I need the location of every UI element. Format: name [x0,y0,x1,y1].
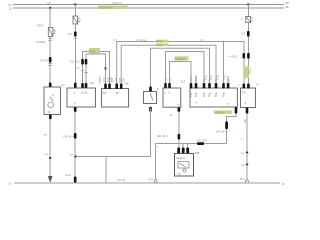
wire from bus 15 down to fuse S263 [49,8,51,28]
box A3 (control unit) [102,89,129,108]
svg-text:T6a: T6a [203,92,206,97]
svg-text:SP2: SP2 [103,77,106,82]
svg-text:mf: mf [241,164,244,167]
wire bus 30 down to fuse SB [247,5,249,17]
wire code label on hat J17 [175,56,189,60]
svg-text:0.35: 0.35 [205,75,208,80]
wire code label below box J [214,111,232,114]
svg-text:15: 15 [8,7,12,11]
pin blob below box J right [235,107,238,114]
wire switch F to ground [49,119,51,177]
connector sleeve on hat leg x86 [85,59,88,65]
svg-text:T6a: T6a [223,92,226,97]
svg-text:+2S/14: +2S/14 [214,110,223,114]
wire H1 [117,42,244,89]
svg-text:sw/ge: sw/ge [156,40,163,43]
svg-text:+A 28.1: +A 28.1 [228,55,238,59]
pin blob below A2 [74,107,77,112]
svg-text:T10k/5: T10k/5 [99,76,102,84]
svg-text:C: C [52,93,54,97]
bus 15 [13,7,284,9]
svg-text:GR 287: GR 287 [40,58,50,62]
ticks on ground wire [246,152,248,154]
svg-text:A2: A2 [91,81,95,85]
box J pin blobs [190,83,193,89]
junction dot rail to x75 wire [74,155,76,157]
svg-text:0.35 sw/ro: 0.35 sw/ro [99,6,113,10]
connector ticks on hat legs [81,70,85,72]
node on bus 30 at x75 [74,3,76,5]
svg-text:ws: ws [44,133,48,137]
svg-text:7 G: 7 G [242,91,246,94]
wire fuse S7 to relay box A2 [74,24,76,82]
wire H2 [121,45,216,88]
svg-text:GR 38.8: GR 38.8 [197,138,208,142]
jumper hat outer (box A2 to box A3) [83,52,110,89]
svg-text:F: F [157,87,159,91]
connector sleeve 107 [74,32,77,37]
svg-text:mot: mot [47,2,51,5]
pin blob above box A2 pin1 [74,83,77,89]
svg-text:T2P/7: T2P/7 [190,75,193,82]
pin blob below box A [246,108,249,114]
svg-text:ws17: ws17 [65,173,72,177]
horizontal wire y143.5 [156,143,227,145]
svg-text:J17: J17 [181,80,186,84]
wire code label on hats [89,48,100,53]
svg-text:T2P/5: T2P/5 [195,75,198,82]
svg-text:SP4: SP4 [107,77,110,82]
svg-text:0.35: 0.35 [210,75,213,80]
arrow on hat inner right leg [104,68,107,71]
svg-text:5A: 5A [53,31,56,34]
stub wire above box J pin 196 [195,76,197,83]
connector sleeve at ground x75 [74,177,77,183]
pin blob above J17 pin1 [164,83,167,88]
wire fuse SB down to box A pin2 [247,23,249,84]
fuse S263 [48,28,56,37]
wires down to relay box pins [182,144,184,154]
connector sleeve on y143.5 wire [197,142,204,145]
box A (box7) [241,88,256,108]
fuse SB [241,17,253,23]
svg-text:SP8: SP8 [119,77,122,82]
pin blob below switch F [49,115,52,120]
wire fuse S263 to box F2 [49,37,51,83]
pin blob A3 pin2 [108,84,111,90]
wire left drop to ground [155,144,157,180]
svg-text:T6a: T6a [209,92,212,97]
vertical wire code label between box A wires [243,67,249,79]
svg-text:15: 15 [285,5,289,9]
svg-text:GR 48.3: GR 48.3 [157,134,168,138]
ground bus 31 [14,182,280,184]
stub wire above box J pin 228 [227,76,229,83]
pin blob above A2 pin3 [85,83,88,88]
jumper hat inner [86,54,106,89]
wire rail drop to ground at x106 [105,157,107,183]
relay box J (bottom) [175,154,194,177]
pin blob below switch F4 [149,107,152,112]
wire switch F4 down to rail [75,109,150,157]
wire from bus 30 down to fuse S7 [74,5,76,17]
connector ticks [48,63,52,65]
svg-text:S263B: S263B [36,40,45,44]
relay box pin blobs [177,148,180,154]
junction dot on x50 wire [49,157,51,159]
box A2 (relay) [67,88,96,107]
box J (control unit, box6) [190,88,237,107]
svg-text:4T0: 4T0 [148,177,153,181]
svg-text:T2P: T2P [195,92,198,97]
svg-text:J28: J28 [195,151,200,155]
wire A2 to ground [74,112,76,183]
connector sleeve on box J down wire [225,122,228,130]
svg-text:T2P: T2P [190,92,193,97]
wire H4 from relay J17 pin1 [166,52,205,84]
svg-text:T10k: T10k [89,50,96,54]
svg-text:SP9: SP9 [123,77,126,82]
pin blob above box A pin1 [243,84,246,89]
svg-text:GR 28.7: GR 28.7 [216,129,227,133]
wire code label on H1 H2 [156,40,169,43]
svg-text:T4k: T4k [243,118,247,123]
pin blob below J17 [178,107,181,112]
svg-text:GR 48.1: GR 48.1 [70,59,81,63]
svg-text:31: 31 [8,182,12,186]
ground ring at x247 [246,180,249,183]
connector sleeve 121 [247,31,250,37]
node on bus 30 at x248 [247,3,249,5]
pin blob above box A pin2 [247,84,250,89]
connector ticks below fuse [48,38,52,40]
bus 30 [13,4,284,6]
relay J17 (box5) [163,88,181,107]
wire box J down with jog [227,114,237,144]
wire H1 branch to box J top pin [223,42,225,84]
pin blob above J17 pin2 [168,83,171,88]
connector tick [73,37,77,39]
svg-text:and 31: and 31 [117,178,126,182]
pin blob above switch F4 [149,87,152,92]
connector sleeve GR48.4 [74,133,77,139]
pin blob A3 pin3 [115,84,118,90]
pin blob A3 pin4 [120,84,123,90]
svg-text:T10k/12: T10k/12 [175,57,186,61]
svg-text:m: m [241,138,243,141]
wire code label on bus 15 [98,6,128,9]
svg-text:SP5: SP5 [112,77,115,82]
svg-text:4T0: 4T0 [240,177,245,181]
connector sleeve pair on box A wires [243,53,246,59]
fuse S7 [73,16,82,24]
svg-text:S263: S263 [37,24,44,28]
ground arrow at x50 [48,176,53,183]
pin blob above A2 pin2 [81,83,84,88]
ground ring at x155.6 [154,180,157,183]
svg-text:SB22/6: SB22/6 [112,1,122,5]
wire J17 down to relay box [178,111,180,154]
svg-text:T10k: T10k [248,68,252,75]
svg-text:A: A [257,83,259,87]
svg-text:0.35: 0.35 [217,75,220,80]
svg-text:T6a: T6a [215,92,218,97]
svg-text:F2: F2 [61,83,65,87]
pin blob A3 pin1 [104,84,107,90]
svg-text:sw/ws: sw/ws [156,44,164,47]
svg-text:0.35: 0.35 [224,75,227,80]
svg-text:30: 30 [282,182,286,186]
node on bus 15 at x50 [49,7,51,9]
svg-text:SP6: SP6 [115,77,118,82]
svg-text:GR 48.4: GR 48.4 [63,134,74,138]
jumper hat J17 to box J [170,62,192,84]
wire box A to ground [246,114,248,183]
svg-text:KX: KX [103,92,107,95]
svg-text:T2: T2 [76,67,80,71]
connector sleeve GR287 [49,57,52,63]
connector sleeve on hat leg x82.5 [81,59,84,65]
pin blob above switch F [49,83,52,88]
svg-text:121: 121 [241,31,246,35]
switch F (box1) [44,87,61,115]
switch F (box4) [144,92,157,104]
svg-text:2a 2x 2: 2a 2x 2 [176,157,185,160]
wire H3 from switch F top [151,48,210,86]
svg-text:107: 107 [68,32,73,36]
connector sleeve GR48.3 [178,134,181,140]
